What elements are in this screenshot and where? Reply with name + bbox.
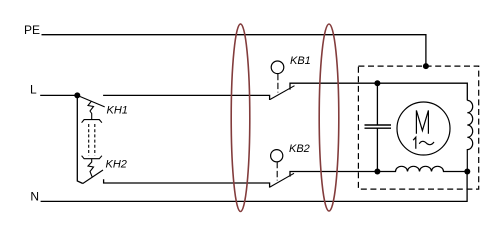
contact KB2 blade [270, 173, 294, 187]
wire KH2 to KB2 [104, 179, 270, 187]
svg-text:KB1: KB1 [290, 55, 311, 67]
node A dot [374, 80, 380, 86]
node C dot [464, 169, 470, 175]
junction node L dot [74, 92, 80, 98]
wire trunk vertical L to KH2 [77, 95, 83, 183]
motor text 1 [413, 137, 416, 149]
pushbutton KB1 actuator dashed [277, 74, 279, 93]
capacitor C bottom lead [376, 128, 378, 171]
contact KB1 blade [270, 86, 295, 100]
wire KH1 to KB1 [103, 95, 270, 100]
wire PE from label to enclosure [42, 35, 426, 66]
mechanical link dashed left [88, 124, 90, 156]
inductor main winding horizontal [377, 166, 467, 171]
motor M1 circle [397, 102, 450, 155]
svg-text:KH2: KH2 [106, 158, 127, 170]
capacitor C top lead [376, 83, 378, 125]
wire N [41, 172, 468, 202]
cable ring ellipse 1 [231, 24, 250, 212]
bimetal saddle KH1 [82, 120, 102, 123]
thermal element KH2 zigzag [88, 159, 94, 177]
svg-text:PE: PE [24, 23, 40, 37]
motor letter M [416, 110, 428, 133]
cable ring ellipse 2 [319, 24, 339, 211]
pushbutton KB2 head [271, 150, 283, 162]
wire KB1 output rail to aux coil [290, 83, 467, 100]
mechanical link dashed right [94, 124, 96, 156]
contact KH2 blade [83, 170, 103, 184]
capacitor C plates [365, 125, 392, 128]
node B dot [374, 169, 380, 175]
inductor aux winding vertical [467, 100, 472, 171]
wire L [40, 94, 77, 96]
contact KH1 blade [77, 95, 104, 107]
junction dot PE on enclosure top [423, 63, 429, 69]
svg-text:L: L [30, 82, 37, 96]
wire KB2 output to node B [290, 172, 377, 177]
motor tilde [419, 141, 434, 144]
svg-text:KB2: KB2 [289, 143, 310, 155]
thermal element KH1 zigzag [88, 101, 94, 119]
svg-text:N: N [30, 190, 39, 204]
pushbutton KB2 actuator dashed [276, 162, 278, 181]
bimetal saddle KH2 [82, 156, 102, 159]
enclosure dashed box [358, 66, 478, 189]
svg-text:KH1: KH1 [107, 104, 128, 116]
pushbutton KB1 head [271, 61, 284, 74]
